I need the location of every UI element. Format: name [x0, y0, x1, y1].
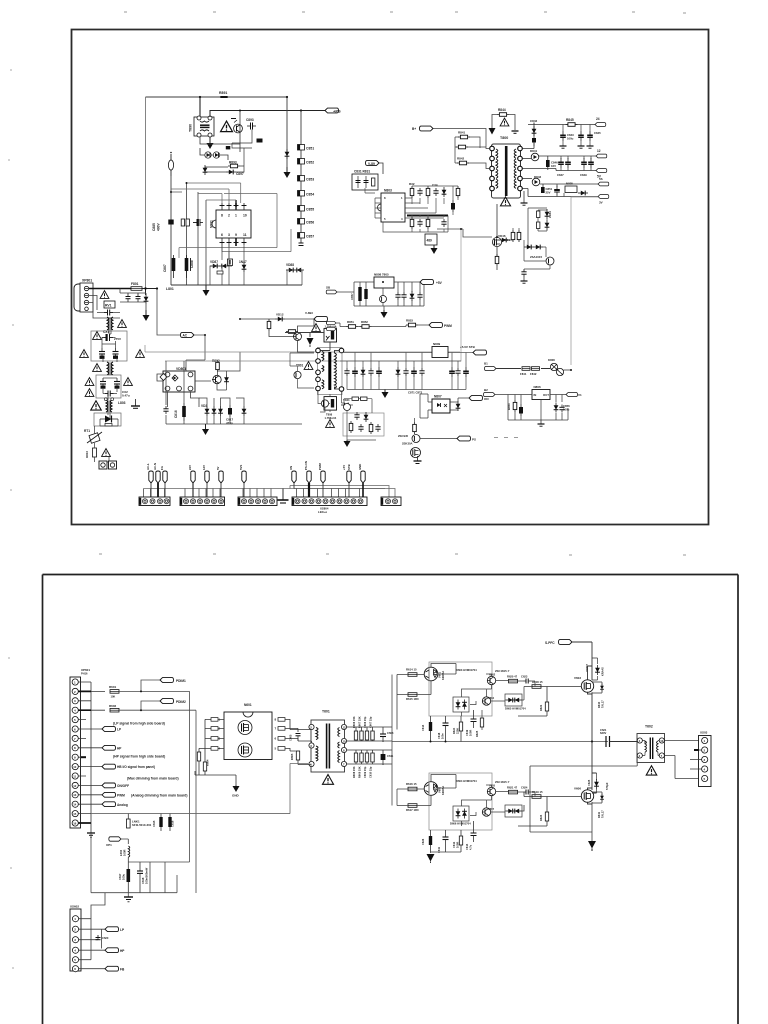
capacitor C616b [168, 814, 174, 831]
node dots page1 [144, 96, 572, 371]
svg-text:D842: D842 [534, 175, 542, 179]
node end x301 [299, 243, 304, 246]
capacitor C854c [521, 269, 526, 277]
warning triangle v805 [326, 420, 335, 428]
fuse F842 [530, 367, 540, 376]
svg-text:R620 47: R620 47 [507, 675, 518, 679]
fuse FB891 [168, 152, 173, 176]
capacitor C856 [298, 219, 315, 225]
svg-text:R607 15K: R607 15K [358, 716, 362, 728]
pin tag A1 [146, 463, 153, 497]
svg-text:XS03: XS03 [700, 731, 708, 735]
svg-text:2: 2 [228, 214, 230, 218]
t602 output wires [530, 741, 699, 842]
connector XS803 [238, 497, 277, 506]
resistor R621 [507, 786, 518, 794]
diode VD891 [205, 152, 211, 158]
npn V805 lower [321, 400, 328, 407]
diode VD803 [201, 404, 209, 416]
capacitor C817 [226, 405, 234, 425]
n601 right pads [278, 718, 285, 751]
regulator N809 [432, 342, 448, 358]
ground arrow sec [382, 390, 389, 399]
pin tag D1 [289, 466, 296, 489]
wire gate v606 [522, 792, 581, 812]
diode VD804 [212, 406, 217, 416]
svg-text:400V: 400V [157, 222, 161, 231]
svg-text:5V: 5V [216, 466, 220, 470]
resistor R845 [566, 118, 578, 126]
svg-text:C626: C626 [421, 838, 425, 845]
wire tag to bridge [157, 289, 205, 361]
wire AC neutral [89, 296, 121, 319]
resistor R856 [361, 397, 368, 400]
svg-text:C618: C618 [437, 732, 441, 739]
capacitor C617b [118, 857, 130, 893]
resistor R893 [228, 161, 240, 168]
wire pdim2 [119, 701, 196, 893]
pin tag B1 [188, 465, 195, 497]
resistor R802 [212, 359, 220, 372]
svg-text:C854: C854 [306, 193, 314, 197]
diode VD892 [213, 152, 219, 158]
capacitor C849 [580, 156, 587, 177]
capacitor C837 [451, 200, 455, 212]
warning triangle t800 [500, 197, 510, 206]
svg-text:C623: C623 [521, 675, 528, 679]
resistor R615 [406, 693, 419, 701]
svg-text:CX1: CX1 [103, 330, 109, 334]
resistor R835 [426, 217, 430, 229]
resistor R813 [267, 319, 271, 331]
svg-text:D605 HVM01704: D605 HVM01704 [505, 707, 526, 711]
svg-text:PDIM2: PDIM2 [176, 700, 186, 704]
svg-text:K800: K800 [548, 358, 555, 362]
connector XS602 [70, 905, 81, 972]
pin tag D2 [304, 461, 311, 497]
svg-text:R810: R810 [85, 450, 89, 458]
transistor V808 [398, 434, 420, 443]
inductor L803 [104, 398, 125, 412]
svg-text:TAL17: TAL17 [601, 810, 605, 818]
capacitor C864 [375, 424, 380, 432]
resistor R850 [507, 400, 517, 412]
stby wires [337, 282, 424, 310]
svg-text:10: 10 [243, 214, 247, 218]
resistor R833 [426, 186, 430, 198]
xs03 stubs [690, 750, 702, 769]
svg-text:6: 6 [221, 233, 223, 237]
tag +24V [595, 117, 606, 126]
svg-text:10: 10 [73, 765, 77, 769]
npn V803 [293, 333, 302, 341]
capacitor C859 [395, 292, 400, 300]
svg-text:12: 12 [597, 149, 601, 153]
wire b5 feed [290, 486, 395, 498]
svg-text:F841: F841 [520, 372, 527, 376]
page2 frame (bottom open) [43, 575, 739, 1024]
wire riser return x290 [290, 764, 308, 814]
ground arrow x287 [284, 167, 291, 178]
svg-text:8: 8 [275, 718, 277, 722]
svg-text:UP1: UP1 [106, 843, 112, 847]
capacitor C848 [565, 156, 571, 171]
svg-text:F801: F801 [131, 282, 139, 286]
mosfet V801 [492, 237, 510, 246]
tag PDIM1 [140, 678, 186, 693]
driver1 inner wires [462, 674, 536, 716]
fuse F841 [520, 367, 530, 376]
transformer T800 [490, 136, 523, 198]
opto N807 [428, 395, 454, 414]
wire top rail y97 [146, 96, 288, 98]
tag PWM out [429, 323, 452, 328]
svg-text:C887: C887 [163, 264, 167, 272]
wire fuse row [496, 368, 550, 370]
capacitor C857 [298, 233, 315, 239]
diode VD607 [585, 658, 605, 680]
svg-text:C816: C816 [174, 410, 178, 418]
diode pair D606 [450, 806, 471, 826]
ground arrow t800 left [489, 128, 496, 135]
rail x186 [186, 183, 188, 285]
wire N801 feed x200 [199, 97, 201, 117]
svg-text:R609 15K: R609 15K [358, 766, 362, 778]
warning triangle t800 top [500, 118, 509, 126]
filter box2 [96, 375, 121, 398]
sec row c1 [344, 361, 349, 390]
capacitor C862 [354, 412, 359, 420]
capacitor C893 [246, 118, 256, 130]
capacitor C832 [364, 176, 369, 188]
resistor R614 [406, 668, 417, 677]
capacitor C886 [193, 219, 203, 226]
svg-text:R845: R845 [566, 118, 574, 122]
svg-text:C605: C605 [289, 734, 293, 741]
wire driver2 bottom [397, 789, 461, 853]
resistor R618 [532, 680, 543, 688]
diode VD845 [545, 220, 550, 230]
capacitor C851 [298, 145, 315, 151]
wire pin15 return [91, 813, 290, 815]
svg-text:C855: C855 [306, 208, 314, 212]
capacitor C606 [365, 731, 368, 740]
svg-text:8: 8 [221, 214, 223, 218]
svg-text:GND: GND [358, 464, 362, 470]
capacitor C608 [380, 730, 394, 743]
fuse F801 [131, 282, 142, 290]
ic bottom pins [220, 238, 247, 247]
diode pair D605 [505, 694, 526, 711]
wire grey riser x461 [340, 229, 461, 361]
zener rail x287 [286, 97, 288, 167]
svg-text:V-89: V-89 [368, 162, 375, 166]
diode VD851 [456, 401, 461, 411]
regulator N806 [532, 385, 550, 400]
tag PWM-B [412, 126, 433, 131]
resistor R836 [456, 186, 460, 198]
svg-text:C606 15p: C606 15p [363, 716, 367, 728]
resistor R858 [369, 422, 373, 434]
capacitor C834 [432, 183, 439, 196]
svg-text:Analog: Analog [117, 803, 128, 807]
svg-text:PS: PS [472, 437, 476, 441]
svg-text:V607: V607 [488, 807, 495, 811]
svg-text:HP: HP [117, 746, 122, 750]
wire pwm row [336, 323, 429, 329]
resistor R847 [537, 222, 540, 229]
svg-text:VD801: VD801 [176, 367, 186, 371]
resistor R626 [452, 830, 463, 852]
ground arrow sub [346, 440, 348, 441]
diode VD806 [242, 406, 247, 416]
svg-text:D603 HVM01704: D603 HVM01704 [456, 668, 477, 672]
capacitor C860 [401, 292, 406, 300]
svg-text:24V: 24V [188, 465, 192, 470]
transistor V806 [530, 255, 554, 265]
pin tag D4 [342, 464, 351, 497]
ground bar reg [538, 420, 545, 426]
snubber box B1 [352, 170, 378, 191]
svg-text:VD3: VD3 [201, 404, 207, 408]
ic N802 [210, 210, 252, 238]
svg-text:FG: FG [160, 466, 164, 470]
label R611 [597, 810, 605, 818]
resistor R606 [354, 731, 357, 740]
resistor R814 [286, 330, 298, 334]
warning triangle box1 right [136, 350, 145, 358]
capacitor C609b [381, 750, 394, 765]
ground arrow ac [143, 310, 150, 321]
svg-text:2SA1015: 2SA1015 [530, 255, 542, 259]
svg-text:R608 15K: R608 15K [352, 766, 356, 778]
diode VD894 [203, 165, 208, 175]
wire opto links [420, 394, 469, 418]
warning triangle t602 [646, 766, 657, 775]
filter box3 [94, 413, 121, 426]
svg-text:12V: 12V [202, 465, 206, 470]
diode VD610 [592, 792, 604, 803]
capacitor C620b [96, 935, 109, 940]
resistor R851 [346, 320, 358, 328]
svg-text:XS602: XS602 [70, 905, 79, 909]
diode VD852 [364, 412, 369, 422]
resistor R605 [290, 751, 300, 765]
capacitor C618b [137, 862, 149, 893]
svg-text:C608: C608 [387, 731, 394, 735]
svg-text:C871 C872: C871 C872 [408, 391, 423, 395]
tag ON [469, 396, 489, 401]
mosfet N601a [238, 721, 252, 735]
wire v x240 [200, 111, 240, 153]
svg-text:25V: 25V [546, 190, 551, 194]
svg-text:14: 14 [73, 803, 77, 807]
tag UP1 [106, 837, 128, 847]
transistor V611 [487, 669, 510, 685]
zener pair block [528, 208, 552, 247]
pin tag A3 [160, 466, 167, 497]
mosfet N601b [238, 743, 252, 757]
connector XS805 [381, 497, 401, 506]
warning triangle box2 right [124, 378, 133, 386]
connector bus y488.5 [144, 488, 386, 490]
capacitor CY2 [136, 293, 141, 302]
regulator N805 [565, 182, 577, 193]
capacitor C850 [588, 156, 594, 171]
capacitor C847 [557, 156, 564, 177]
svg-text:C847: C847 [557, 173, 564, 177]
wire pin1 row [522, 123, 595, 149]
capacitor CX2 [105, 390, 130, 398]
sec row c7 [419, 353, 424, 390]
svg-text:LED+α: LED+α [318, 510, 327, 514]
svg-text:C34: C34 [432, 183, 438, 187]
svg-text:R851: R851 [347, 320, 354, 324]
warning triangle W1 [221, 119, 236, 132]
svg-text:N602: N602 [489, 673, 496, 677]
n601 bottom bus [195, 771, 236, 785]
svg-text:3: 3 [228, 233, 230, 237]
svg-text:C851: C851 [306, 147, 314, 151]
dashes [494, 437, 518, 439]
svg-text:(Max dimming from main board): (Max dimming from main board) [127, 777, 179, 781]
tag V-out2 [484, 388, 495, 397]
driver2 wires [397, 775, 456, 806]
svg-text:C893: C893 [246, 118, 254, 122]
diode pair D607b [505, 805, 522, 817]
wire v805 links [318, 391, 345, 412]
svg-text:C853: C853 [306, 178, 314, 182]
svg-text:0.47u: 0.47u [122, 394, 130, 398]
resistor R834 [410, 217, 414, 229]
svg-text:FB: FB [120, 967, 125, 971]
capacitor C836 [441, 219, 446, 227]
sec row c4 [376, 361, 382, 390]
resistor R607 [360, 731, 363, 740]
capacitor C846 [546, 156, 558, 170]
svg-text:B+: B+ [412, 127, 416, 131]
pin tag B3 [216, 466, 223, 497]
svg-text:RV1: RV1 [105, 303, 112, 307]
svg-text:KRA4S: KRA4S [601, 667, 605, 676]
driver1 box [429, 662, 492, 716]
svg-text:N808 7805: N808 7805 [374, 273, 389, 277]
transistor V613 [487, 780, 510, 796]
pin9 tick [81, 756, 86, 758]
svg-text:T800: T800 [500, 136, 508, 140]
svg-text:V601: V601 [438, 671, 442, 678]
svg-text:C620: C620 [102, 936, 109, 940]
warning triangle L802 [93, 364, 102, 372]
diode VD842 row3 [522, 175, 541, 186]
svg-text:LP: LP [120, 928, 125, 932]
diode VD893 [226, 170, 244, 176]
diode VD846 [498, 234, 509, 242]
bank top wires [347, 727, 392, 742]
svg-text:1: 1 [235, 214, 237, 218]
svg-text:ON/OFF: ON/OFF [117, 784, 129, 788]
svg-text:100R: 100R [469, 730, 473, 736]
node cap C885 [152, 220, 174, 232]
svg-text:C616: C616 [171, 820, 175, 827]
svg-text:V603: V603 [574, 676, 581, 680]
wire row2 [522, 156, 596, 171]
capacitor C619d [465, 821, 477, 850]
connector XS804 [292, 497, 367, 514]
tag HP2 [105, 948, 125, 953]
rail x198 [197, 192, 199, 285]
wire AC live y288.5 [89, 288, 132, 290]
svg-text:VD88: VD88 [286, 263, 294, 267]
warning triangle ac [100, 291, 109, 299]
tag LP [102, 722, 165, 732]
diode VD831 [442, 187, 447, 197]
wire pwm to t800 [433, 129, 489, 169]
ground arrow gnd601 [232, 785, 240, 798]
wire y319 feed [240, 319, 314, 352]
svg-text:C611: C611 [387, 754, 394, 758]
mosfet V809 [402, 442, 421, 458]
wire reg row [495, 395, 568, 421]
svg-text:R618 15: R618 15 [532, 680, 543, 684]
resistor R622 [518, 702, 549, 716]
svg-text:R852: R852 [361, 320, 368, 324]
resistor R885 [181, 219, 189, 226]
svg-text:R844: R844 [498, 108, 506, 112]
resistor R843 [457, 157, 469, 165]
pwm row tags [327, 321, 336, 330]
svg-text:LP: LP [117, 728, 122, 732]
svg-text:C885: C885 [152, 223, 156, 231]
transistor V802 [212, 375, 221, 383]
resistor R602 [109, 704, 119, 712]
tag +5V stby out [420, 280, 443, 285]
tag HP [102, 745, 165, 758]
diode VD810 [144, 294, 149, 304]
ground bar c854 [521, 277, 528, 283]
pwm cluster wires2 [383, 186, 458, 232]
svg-text:RT1: RT1 [84, 429, 90, 433]
page1 frame [72, 30, 709, 525]
resistor R619 [532, 790, 543, 798]
node junction x301 [300, 109, 302, 111]
capacitor C616c [421, 716, 432, 742]
bridge rectifier VD801 [160, 367, 195, 392]
bank bot wires [347, 750, 392, 765]
resistor R601 [109, 685, 119, 699]
capacitor C858 [364, 289, 367, 299]
warning triangle box2 left [85, 378, 94, 386]
svg-text:V606: V606 [574, 787, 581, 791]
box N804 [425, 234, 437, 245]
transformer N801 [189, 116, 215, 137]
wire x244 up [232, 143, 252, 166]
ground bar t800 right [512, 131, 519, 133]
ground bar v809 [414, 456, 422, 464]
mid bus junctions [430, 740, 594, 742]
wire bottomleft h862 [91, 833, 190, 897]
diode VD896 [210, 260, 229, 268]
tag +PS [325, 108, 341, 113]
resistor R844 top [497, 108, 509, 116]
svg-text:L803: L803 [118, 401, 126, 405]
svg-text:+5.0V STB: +5.0V STB [460, 345, 476, 349]
pwm bus thick y215 [407, 215, 448, 217]
svg-text:100n: 100n [441, 733, 445, 739]
svg-text:F842: F842 [530, 372, 537, 376]
rail x571 [571, 197, 598, 365]
tag +5 stby2 [460, 345, 487, 355]
